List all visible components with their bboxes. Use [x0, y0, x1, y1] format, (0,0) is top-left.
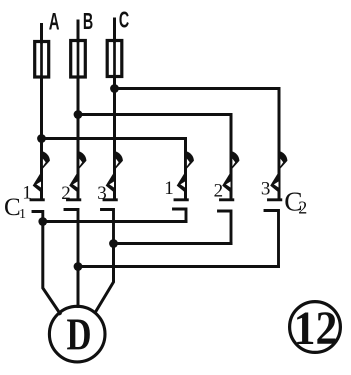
- fixed terminal of contact 3 of C2: [265, 211, 279, 267]
- wire bus phase A to contact 1 of C2: [42, 139, 186, 161]
- contact 1 of C2 pole number 1: [164, 178, 174, 199]
- wire motor lead 2 middle: [77, 267, 80, 307]
- contact 2 of C2 moving blade: [221, 150, 240, 200]
- label C1 contactor group: [4, 194, 26, 222]
- node C label: [119, 8, 129, 33]
- svg-text:A: A: [49, 9, 60, 35]
- svg-text:3: 3: [261, 179, 271, 200]
- figure number 12: [294, 301, 338, 354]
- contact 2 of C2 pole number 2: [214, 181, 224, 202]
- svg-text:12: 12: [294, 301, 338, 354]
- fuse F3 on phase C: [107, 41, 122, 77]
- wire bus contact 1 of C1 to contact 1 of C2: [43, 220, 186, 223]
- junction dot on phase B: [74, 110, 83, 119]
- contact 1 of C1 pole number 1: [22, 183, 32, 204]
- contact 2 of C1 moving blade: [68, 150, 87, 200]
- fixed terminal of contact 2 of C1: [65, 210, 78, 267]
- wire phase A terminal lead: [40, 25, 43, 43]
- svg-text:2: 2: [61, 183, 71, 204]
- motor M (circle): [49, 306, 105, 362]
- wire motor lead 1 left: [43, 222, 60, 314]
- wire bus phase C to contact 3 of C2: [115, 89, 280, 161]
- junction dot on phase C: [110, 84, 119, 93]
- svg-text:3: 3: [97, 183, 107, 204]
- fixed terminal of contact 2 of C2: [219, 211, 232, 244]
- node B label: [83, 10, 93, 35]
- svg-text:1: 1: [19, 207, 26, 222]
- contact 3 of C1 moving blade: [104, 150, 123, 200]
- fuse F1 on phase A: [35, 42, 49, 78]
- figure number circle: [290, 302, 341, 353]
- wire phase C terminal lead: [113, 19, 116, 41]
- wire phase C fuse to contact 3 of C1: [113, 77, 116, 161]
- wire phase A fuse to contact 1 of C1: [40, 77, 43, 160]
- wire bus phase B to contact 2 of C2: [78, 115, 231, 161]
- wire bus contact 3 of C1 to contact 2 of C2: [114, 242, 232, 245]
- svg-text:D: D: [66, 309, 91, 359]
- svg-text:1: 1: [22, 183, 32, 204]
- node A label: [49, 9, 60, 35]
- contact 3 of C2 moving blade: [269, 150, 288, 200]
- wire motor lead 3 right: [96, 244, 114, 313]
- contact 2 of C1 pole number 2: [61, 183, 71, 204]
- junction dot on phase A: [37, 134, 46, 143]
- contact 1 of C2 moving blade: [175, 150, 194, 200]
- motor letter D: [66, 309, 91, 359]
- fixed terminal of contact 1 of C1: [33, 212, 43, 222]
- contact 3 of C1 pole number 3: [97, 183, 107, 204]
- svg-text:2: 2: [214, 181, 224, 202]
- wire bus contact 2 of C1 to contact 3 of C2: [78, 265, 279, 268]
- wire phase B fuse to contact 2 of C1: [77, 77, 80, 160]
- junction dot below contact 3 of C1: [109, 239, 118, 248]
- fixed terminal of contact 1 of C2: [174, 209, 187, 222]
- junction dot below contact 1 of C1: [38, 217, 47, 226]
- fixed terminal of contact 3 of C1: [102, 210, 114, 244]
- svg-text:1: 1: [164, 178, 174, 199]
- label C2 contactor group: [284, 186, 307, 218]
- wire phase B terminal lead: [77, 21, 80, 41]
- svg-text:B: B: [83, 10, 93, 35]
- svg-text:C: C: [119, 8, 129, 33]
- junction dot below contact 2 of C1: [74, 262, 83, 271]
- contact 3 of C2 pole number 3: [261, 179, 271, 200]
- contact 1 of C1 moving blade: [31, 150, 50, 200]
- fuse F2 on phase B: [71, 41, 86, 78]
- svg-text:2: 2: [298, 198, 307, 218]
